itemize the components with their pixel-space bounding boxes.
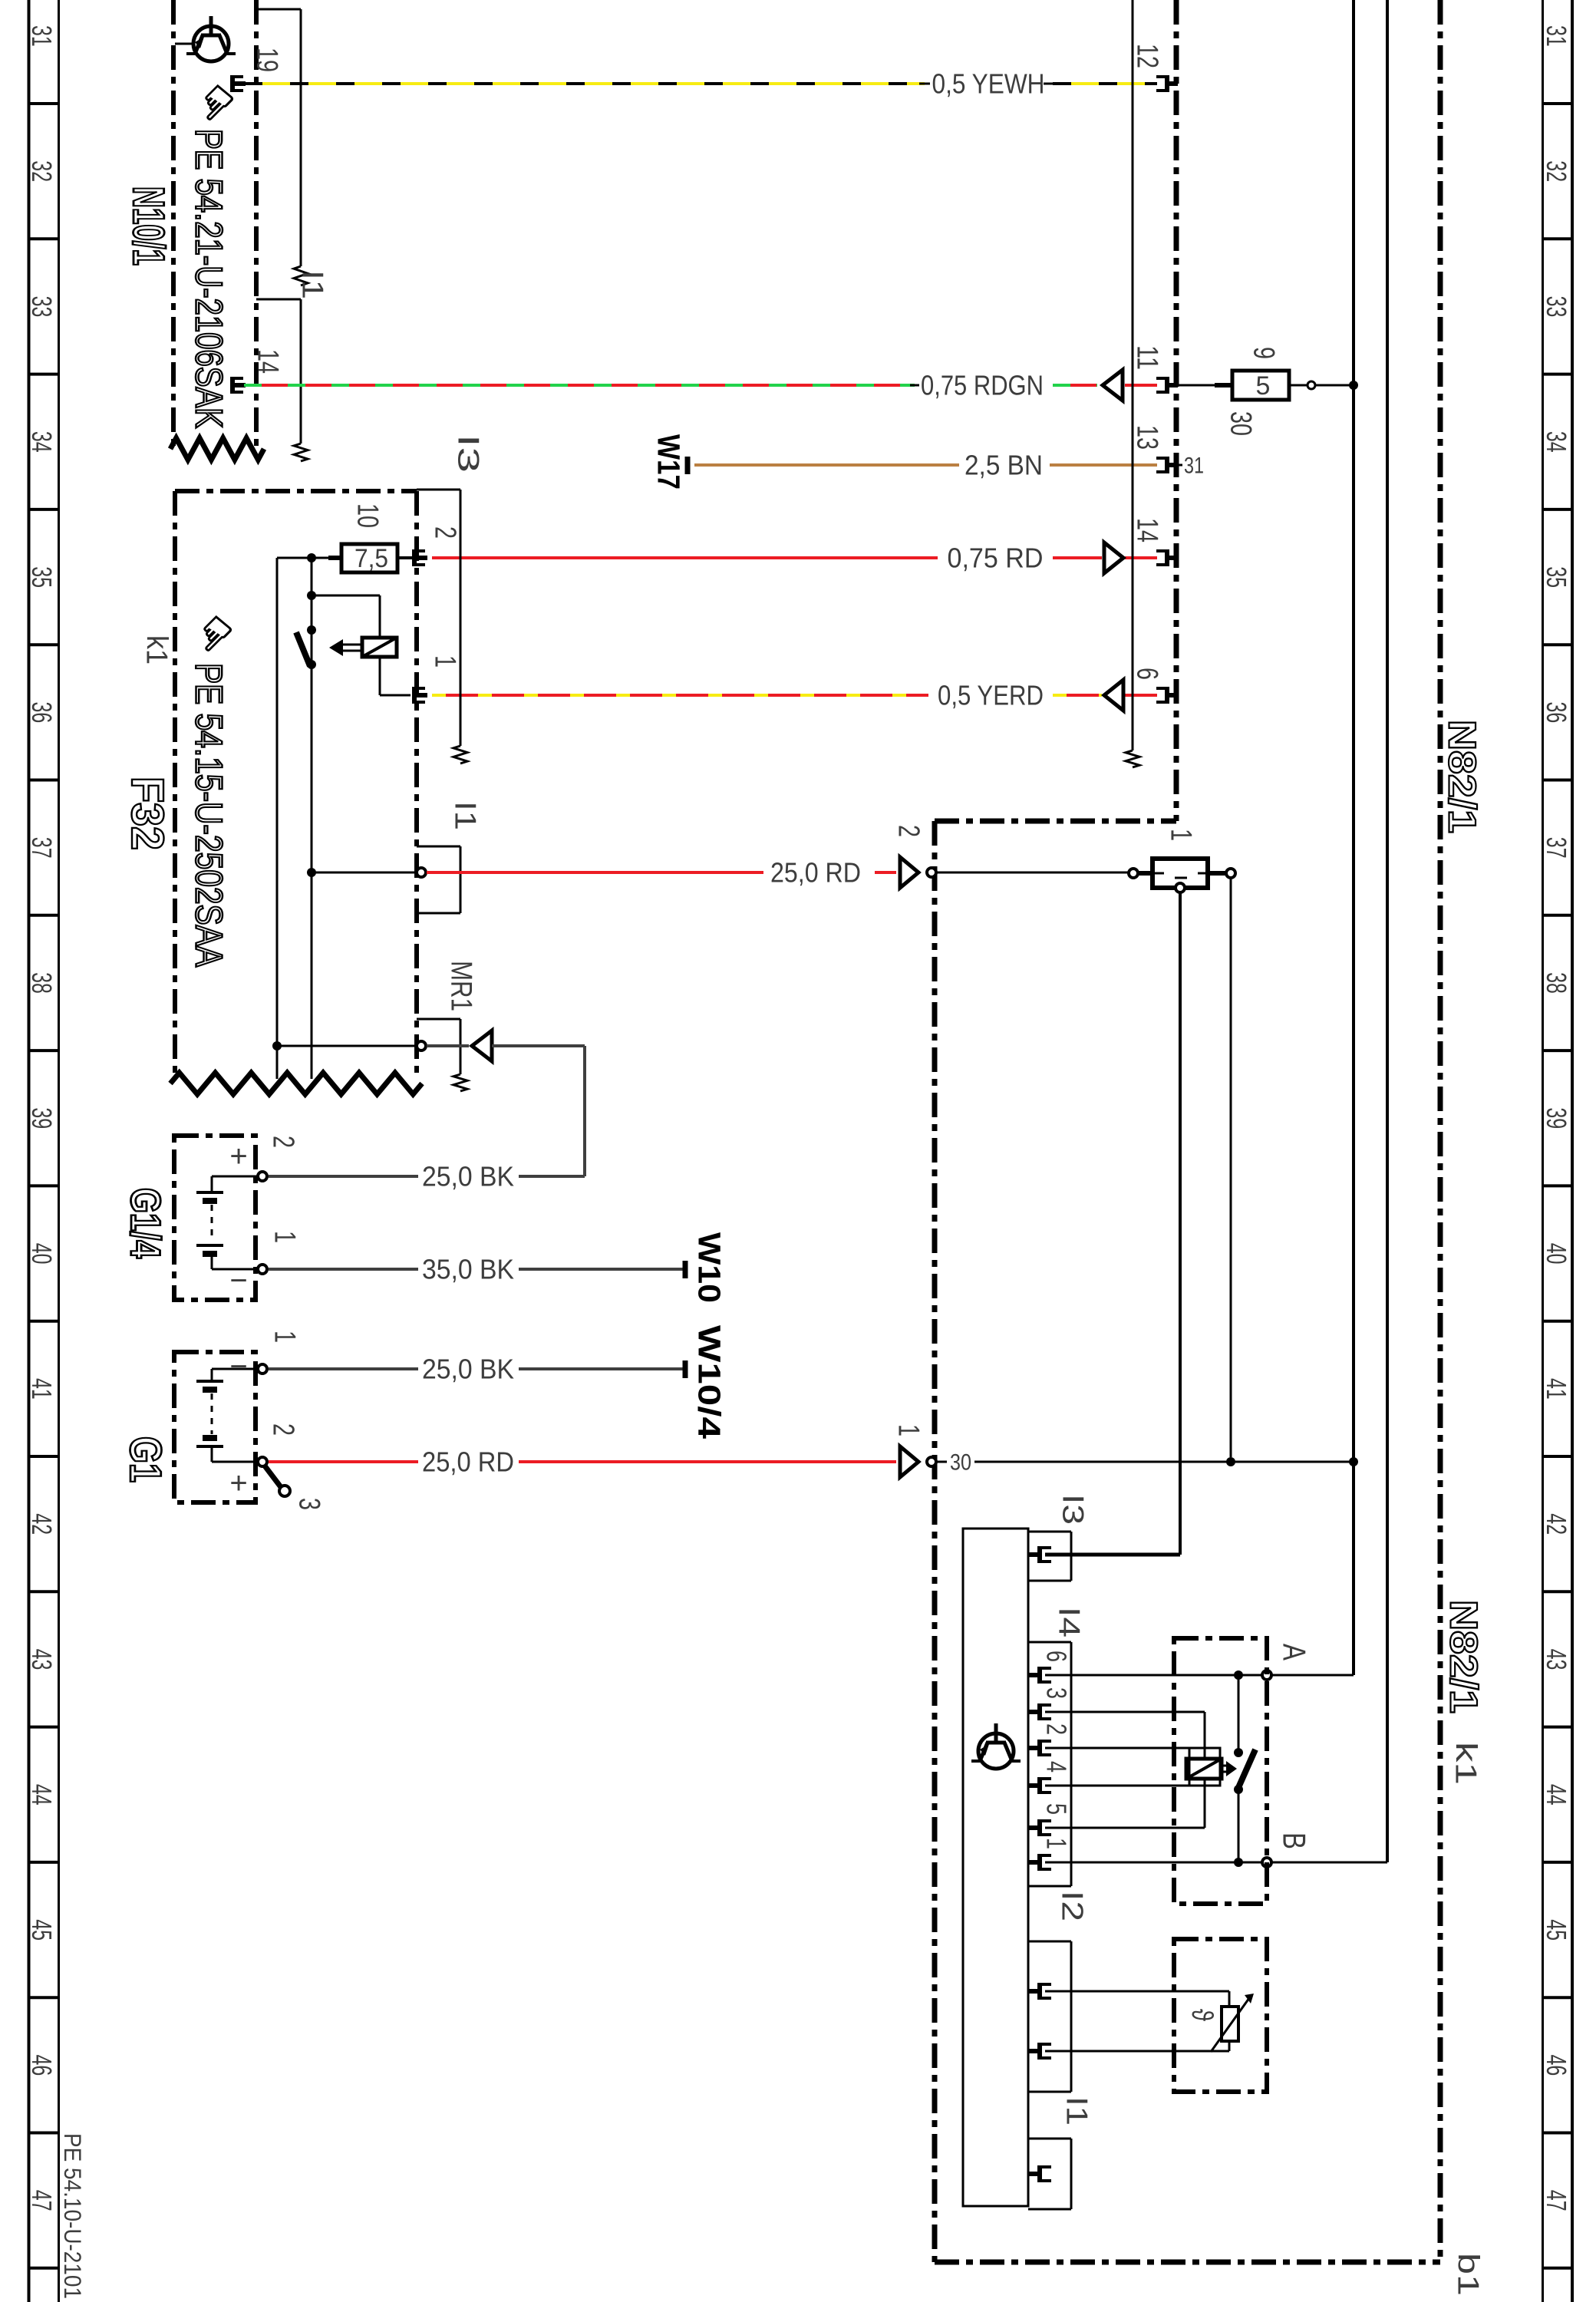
svg-text:6: 6 — [1130, 668, 1164, 680]
svg-text:I3: I3 — [451, 434, 485, 473]
svg-text:1: 1 — [1164, 829, 1198, 841]
svg-text:PE 54.21-U-2106SAK: PE 54.21-U-2106SAK — [188, 129, 230, 428]
svg-text:13: 13 — [1130, 425, 1164, 450]
svg-text:41: 41 — [1541, 1378, 1572, 1400]
svg-text:N82/1: N82/1 — [1441, 720, 1484, 833]
svg-text:34: 34 — [1541, 431, 1572, 453]
svg-text:5: 5 — [1040, 1803, 1072, 1815]
svg-text:14: 14 — [1130, 518, 1164, 543]
svg-text:35,0 BK: 35,0 BK — [422, 1254, 514, 1285]
svg-text:31: 31 — [26, 25, 58, 47]
svg-text:I1: I1 — [1060, 2096, 1093, 2126]
svg-text:3: 3 — [292, 1498, 326, 1510]
svg-text:☞: ☞ — [182, 602, 246, 666]
svg-text:10: 10 — [351, 503, 384, 528]
svg-text:+: + — [229, 1466, 247, 1500]
svg-text:W17: W17 — [651, 434, 687, 490]
svg-text:33: 33 — [1541, 296, 1572, 318]
svg-text:47: 47 — [1541, 2190, 1572, 2211]
svg-text:G1: G1 — [120, 1436, 170, 1482]
svg-text:46: 46 — [26, 2055, 58, 2076]
svg-text:36: 36 — [26, 702, 58, 724]
svg-text:3: 3 — [1040, 1687, 1072, 1699]
svg-text:W10: W10 — [692, 1232, 727, 1303]
svg-text:I3: I3 — [1056, 1494, 1090, 1525]
svg-text:41: 41 — [26, 1378, 58, 1400]
svg-text:43: 43 — [1541, 1649, 1572, 1670]
svg-text:7,5: 7,5 — [354, 544, 388, 573]
svg-text:1: 1 — [1040, 1838, 1072, 1849]
svg-text:33: 33 — [26, 296, 58, 318]
svg-text:0,75 RD: 0,75 RD — [948, 543, 1044, 574]
svg-text:PE 54.10-U-2101: PE 54.10-U-2101 — [58, 2133, 85, 2299]
svg-text:I1: I1 — [295, 270, 329, 299]
svg-text:4: 4 — [1040, 1761, 1072, 1773]
svg-text:32: 32 — [1541, 160, 1572, 182]
svg-text:44: 44 — [26, 1784, 58, 1806]
svg-text:1: 1 — [892, 1424, 925, 1436]
svg-text:39: 39 — [1541, 1107, 1572, 1129]
svg-text:25,0 BK: 25,0 BK — [422, 1354, 514, 1385]
svg-text:47: 47 — [26, 2190, 58, 2211]
svg-text:42: 42 — [1541, 1513, 1572, 1535]
svg-text:25,0 RD: 25,0 RD — [770, 857, 861, 889]
svg-text:b1: b1 — [1451, 2253, 1485, 2296]
svg-text:34: 34 — [26, 431, 58, 453]
svg-text:2: 2 — [266, 1423, 300, 1436]
svg-text:46: 46 — [1541, 2055, 1572, 2076]
svg-text:30: 30 — [950, 1450, 971, 1476]
svg-text:N82/1: N82/1 — [1443, 1600, 1486, 1713]
svg-text:35: 35 — [1541, 566, 1572, 588]
svg-text:38: 38 — [26, 972, 58, 994]
svg-text:37: 37 — [26, 837, 58, 859]
svg-text:5: 5 — [1256, 371, 1271, 401]
svg-text:I2: I2 — [1055, 1891, 1089, 1921]
svg-text:k1: k1 — [140, 635, 173, 665]
svg-text:2,5 BN: 2,5 BN — [965, 450, 1043, 481]
svg-text:44: 44 — [1541, 1784, 1572, 1806]
svg-text:2: 2 — [892, 825, 925, 837]
svg-text:6: 6 — [1040, 1651, 1072, 1662]
svg-text:32: 32 — [26, 160, 58, 182]
svg-text:40: 40 — [26, 1243, 58, 1265]
svg-text:A: A — [1276, 1644, 1312, 1661]
svg-text:11: 11 — [1130, 345, 1164, 370]
svg-text:F32: F32 — [122, 777, 173, 850]
svg-text:35: 35 — [26, 566, 58, 588]
svg-text:38: 38 — [1541, 972, 1572, 994]
svg-text:0,75 RDGN: 0,75 RDGN — [921, 370, 1044, 401]
svg-text:0,5 YEWH: 0,5 YEWH — [932, 68, 1045, 100]
svg-text:36: 36 — [1541, 702, 1572, 724]
svg-text:19: 19 — [250, 48, 284, 72]
svg-text:I4: I4 — [1052, 1607, 1086, 1637]
svg-text:43: 43 — [26, 1649, 58, 1670]
svg-text:1: 1 — [428, 655, 462, 668]
svg-text:MR1: MR1 — [444, 961, 478, 1011]
svg-text:k1: k1 — [1449, 1742, 1482, 1785]
svg-text:25,0 RD: 25,0 RD — [422, 1446, 514, 1478]
svg-text:2: 2 — [266, 1136, 300, 1148]
svg-text:PE 54.15-U-2502SAA: PE 54.15-U-2502SAA — [188, 663, 230, 968]
svg-text:45: 45 — [26, 1919, 58, 1941]
svg-text:B: B — [1276, 1832, 1312, 1849]
svg-text:N10/1: N10/1 — [124, 186, 173, 265]
svg-text:31: 31 — [1184, 453, 1204, 479]
svg-text:45: 45 — [1541, 1919, 1572, 1941]
svg-text:G1/4: G1/4 — [122, 1188, 169, 1258]
svg-text:25,0 BK: 25,0 BK — [422, 1161, 514, 1192]
svg-text:42: 42 — [26, 1513, 58, 1535]
svg-text:31: 31 — [1541, 25, 1572, 47]
svg-text:0,5 YERD: 0,5 YERD — [938, 680, 1044, 711]
svg-text:9: 9 — [1247, 347, 1281, 359]
svg-text:1: 1 — [268, 1331, 302, 1343]
svg-text:39: 39 — [26, 1107, 58, 1129]
svg-text:+: + — [229, 1139, 247, 1173]
svg-text:30: 30 — [1224, 411, 1258, 436]
svg-text:40: 40 — [1541, 1243, 1572, 1265]
svg-text:37: 37 — [1541, 837, 1572, 859]
svg-text:I1: I1 — [448, 801, 482, 830]
svg-text:☞: ☞ — [183, 71, 247, 135]
svg-text:12: 12 — [1130, 44, 1164, 68]
svg-text:14: 14 — [251, 349, 285, 374]
svg-text:2: 2 — [1040, 1723, 1072, 1735]
svg-text:W10/4: W10/4 — [692, 1325, 727, 1439]
svg-text:ϑ: ϑ — [1185, 2009, 1218, 2021]
svg-text:2: 2 — [428, 526, 462, 539]
svg-text:1: 1 — [268, 1231, 302, 1243]
svg-text:−: − — [229, 1350, 247, 1384]
